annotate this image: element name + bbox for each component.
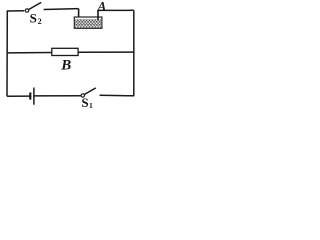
switch S1 lever blade (84, 88, 96, 95)
svg-text:B: B (60, 57, 71, 73)
svg-text:A: A (97, 0, 107, 14)
wire: middle branch right segment (78, 51, 134, 53)
switch S1 pivot circle (81, 94, 84, 97)
svg-text:2: 2 (38, 17, 42, 26)
wire: bottom-left segment to battery (7, 95, 30, 97)
wire: battery to switch S1 (34, 95, 81, 97)
wire: top-left segment to switch S2 (7, 10, 25, 12)
container A liquid (stippled fill) (75, 19, 101, 27)
resistor B body (52, 48, 78, 55)
wire: middle branch left segment (7, 52, 52, 54)
wire: S1 to bottom-right corner (100, 94, 135, 97)
wire: top-right segment from A to right side (98, 9, 134, 11)
wire: from S2 to container A (44, 8, 79, 11)
svg-text:S: S (30, 11, 37, 26)
wire: left vertical side of loop (6, 11, 8, 96)
container A body (tank) (74, 17, 102, 28)
battery negative plate (short thick) (29, 93, 31, 100)
right electrode of container A (97, 10, 99, 19)
wire: vertical drop / left electrode into container (78, 9, 80, 20)
svg-text:1: 1 (89, 101, 93, 110)
switch S2 pivot circle (25, 9, 28, 12)
svg-text:S: S (81, 95, 88, 110)
battery positive plate (long thin) (33, 88, 35, 105)
wire: right vertical side of loop (133, 10, 135, 96)
switch S2 lever blade (29, 2, 42, 9)
